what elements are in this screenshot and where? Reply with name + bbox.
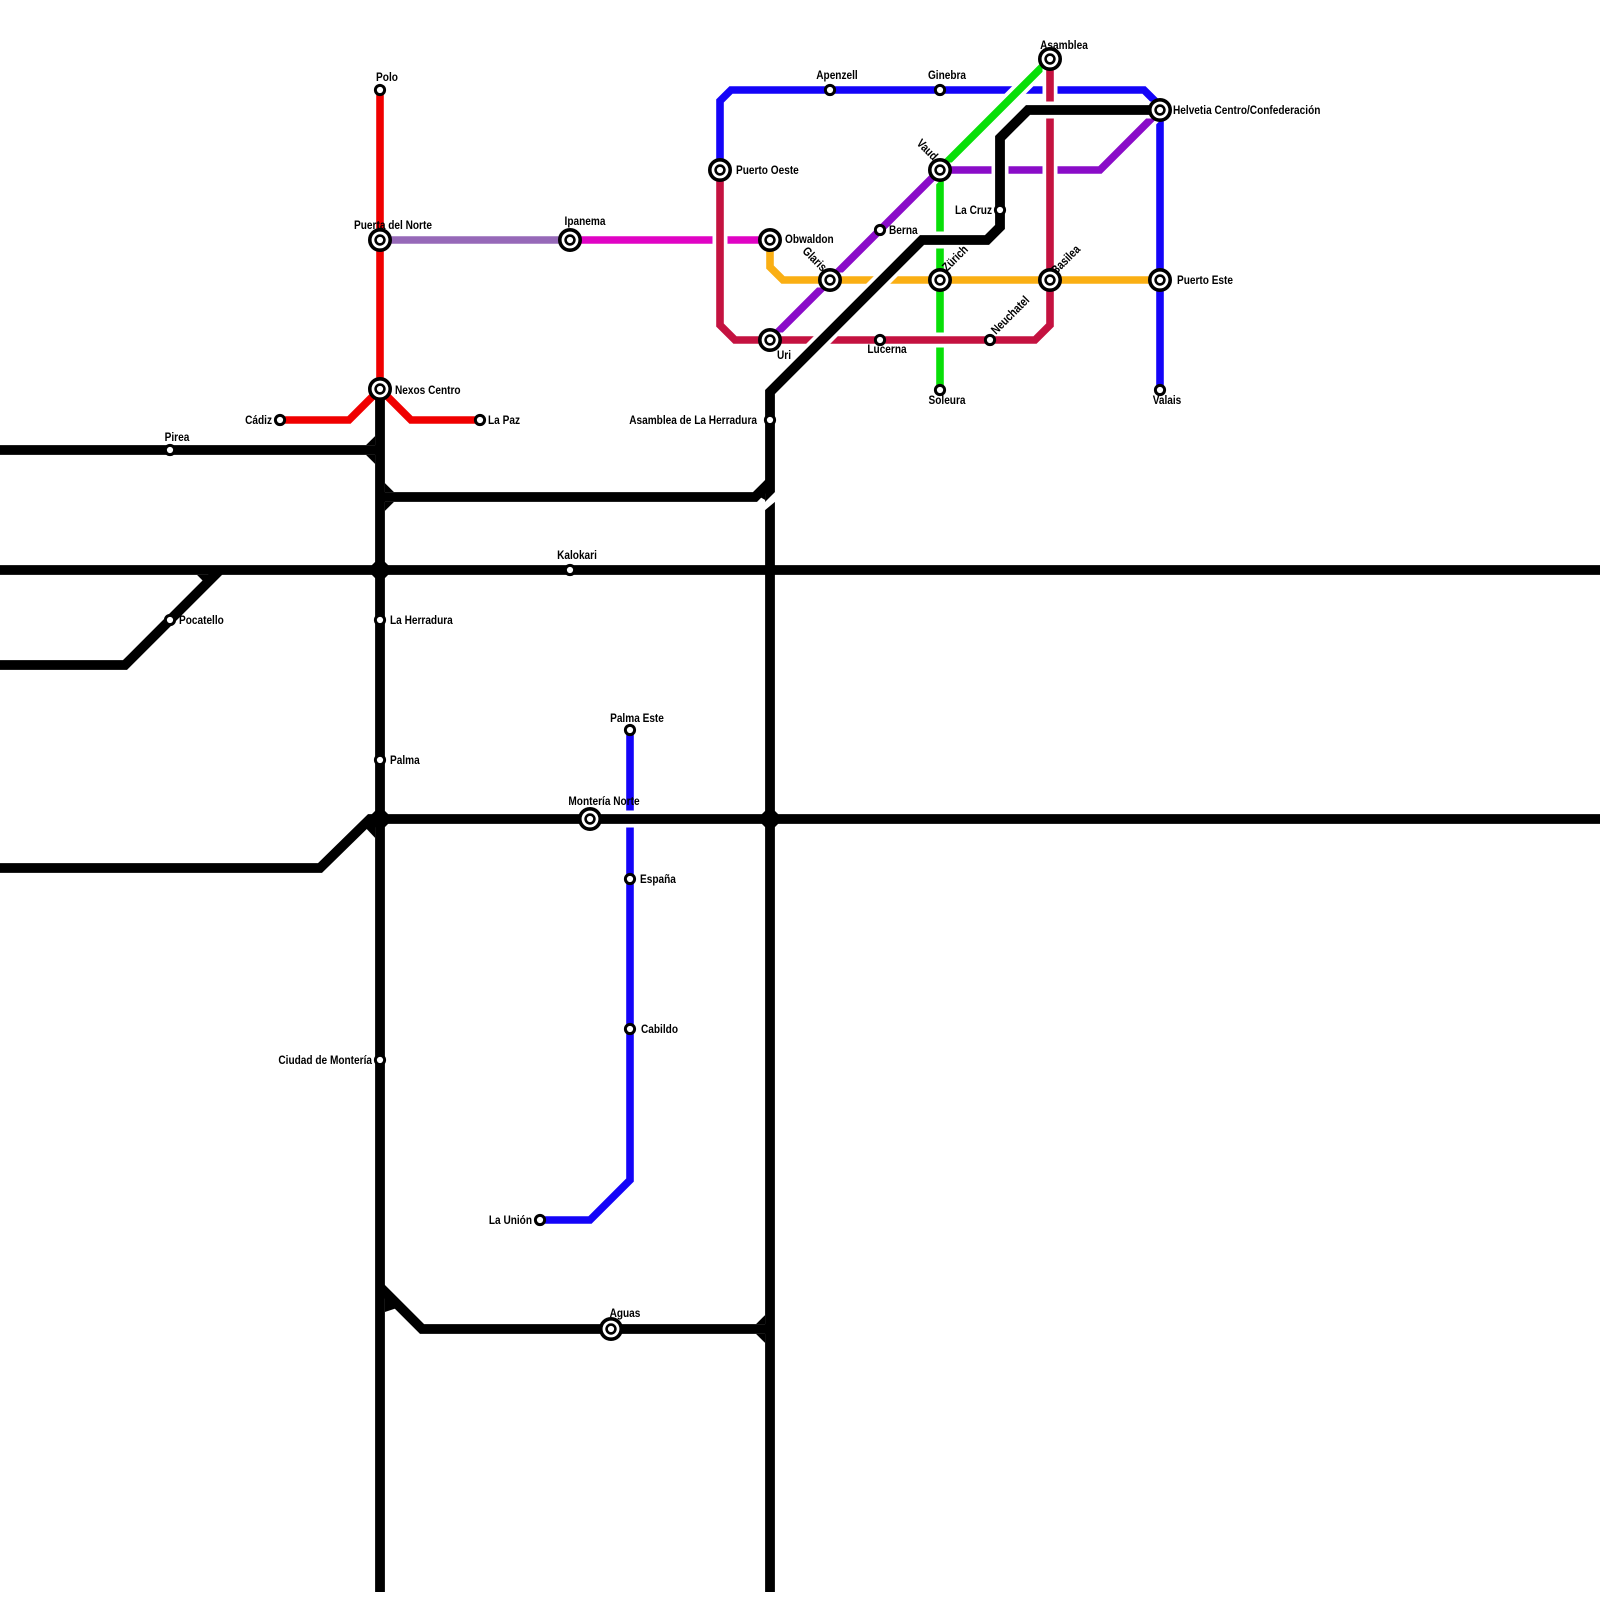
station Cabildo [625,1024,634,1033]
station Palma Este [625,725,634,734]
svg-text:Valais: Valais [1153,393,1182,407]
station Apenzell [825,85,834,94]
interchange station Uri [760,330,780,350]
green line [940,59,1050,390]
svg-text:España: España [640,872,676,886]
station Asamblea de La Herradura [765,415,774,424]
svg-text:La Unión: La Unión [489,1213,532,1227]
red branch Cadiz [280,389,380,420]
svg-text:Puerta del Norte: Puerta del Norte [354,218,432,232]
red line Polo-Nexos Centro [376,90,384,389]
station Polo [375,85,384,94]
junction fillet at Pirea line end [366,436,375,464]
interchange station Puerto Este [1150,270,1170,290]
svg-text:Puerto Este: Puerto Este [1177,273,1233,287]
svg-text:Puerto Oeste: Puerto Oeste [736,163,799,177]
red branch La Paz [380,389,480,420]
svg-text:Kalokari: Kalokari [557,548,597,562]
interchange station Glaris [820,270,840,290]
svg-text:Uri: Uri [777,348,791,362]
station Ciudad de Monteria [375,1055,384,1064]
station La Herradura [375,615,384,624]
station La Union [535,1215,544,1224]
interchange station Puerto Oeste [710,160,730,180]
svg-text:Pirea: Pirea [165,430,190,444]
station Kalokari [565,565,574,574]
svg-text:Ciudad de Montería: Ciudad de Montería [278,1053,372,1067]
black Pirea line [0,445,380,455]
black S line Helvetia-La Cruz-Asamblea de La Herradura [770,110,1160,1592]
junction fillet at y497 line west end [385,483,394,511]
blue line La Union branch [540,730,630,1220]
svg-text:Berna: Berna [889,223,918,237]
black line y497 [380,482,770,497]
svg-text:Soleura: Soleura [929,393,966,407]
interchange station Zurich [930,270,950,290]
svg-text:Polo: Polo [376,70,398,84]
station La Paz [475,415,484,424]
junction fillet at Pocatello merge [197,575,221,587]
blue line Puerto Oeste - Valais [720,90,1160,390]
svg-text:Ginebra: Ginebra [928,68,966,82]
black Aguas line [380,1287,770,1329]
interchange station Monteria Norte [580,809,600,829]
mediumpurple line [380,233,570,248]
station Pirea [165,445,174,454]
svg-text:Asamblea: Asamblea [1040,38,1088,52]
svg-text:Ipanema: Ipanema [565,214,606,228]
crimson line [720,59,1050,340]
station Neuchatel [985,335,994,344]
station Espana [625,874,634,883]
svg-text:Palma: Palma [390,753,420,767]
interchange station Vaud [930,160,950,180]
junction fillet at y497 line east merge [755,483,765,500]
interchange station Nexos Centro [370,379,390,399]
junction fillet Aguas fork [385,1290,400,1312]
interchange station Aguas [601,1319,621,1339]
svg-text:Apenzell: Apenzell [816,68,858,82]
station Soleura [935,385,944,394]
black Kalokari line [0,565,1600,575]
black Monteria line [0,819,1600,868]
interchange station Basilea [1040,270,1060,290]
station Berna [875,225,884,234]
svg-text:La Cruz: La Cruz [955,203,992,217]
svg-text:Asamblea de La Herradura: Asamblea de La Herradura [629,413,757,427]
svg-text:Lucerna: Lucerna [867,342,906,356]
interchange station Helvetia Centro/Confederacion [1150,100,1170,120]
black Nexos vertical [375,389,385,1592]
station Valais [1155,385,1164,394]
interchange station Obwaldon [760,230,780,250]
white cut below y497 elbow [764,491,776,511]
svg-text:Palma Este: Palma Este [610,711,664,725]
station Pocatello [165,615,174,624]
svg-text:Montería Norte: Montería Norte [568,794,639,808]
station labels [165,38,1321,1320]
svg-text:Helvetia Centro/Confederación: Helvetia Centro/Confederación [1173,103,1320,117]
station Lucerna [875,335,884,344]
black Pocatello branch [0,570,220,665]
svg-text:Pocatello: Pocatello [179,613,224,627]
interchange station Puerta del Norte [370,230,390,250]
station Ginebra [935,85,944,94]
junction fillet Monteria diagonal merge [362,824,375,838]
interchange station Ipanema [560,230,580,250]
purple line [770,110,1160,340]
station Cadiz [275,415,284,424]
junction diamond Kalokari x380 [367,557,393,583]
svg-text:La Paz: La Paz [488,413,520,427]
svg-text:Cádiz: Cádiz [245,413,272,427]
junction fillet Aguas line east end [756,1315,765,1343]
interchange station Asamblea [1040,49,1060,69]
svg-text:Aguas: Aguas [610,1306,641,1320]
station Palma [375,755,384,764]
orange line [770,240,1160,280]
svg-text:Cabildo: Cabildo [641,1022,678,1036]
junction diamond Monteria x770 [757,806,783,832]
svg-text:La Herradura: La Herradura [390,613,453,627]
station La Cruz [995,205,1004,214]
magenta line [570,233,770,248]
svg-text:Nexos Centro: Nexos Centro [395,383,461,397]
junction diamond Monteria x380 [367,806,393,832]
